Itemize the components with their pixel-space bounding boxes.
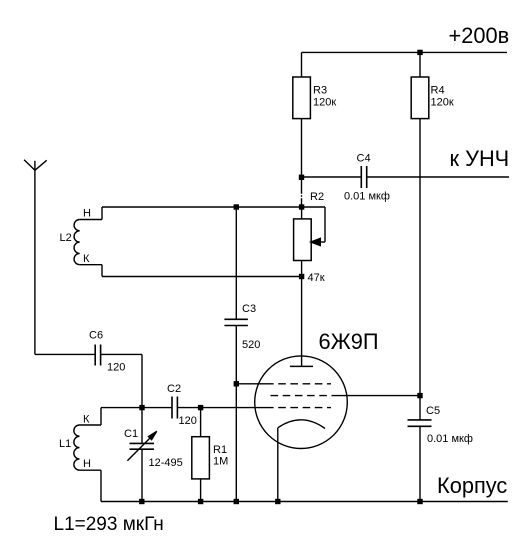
wire antenna to C6	[35, 353, 95, 355]
svg-text:К: К	[83, 414, 90, 426]
variable capacitor C1	[127, 431, 156, 460]
tube U1 grid g3 dashes	[266, 383, 331, 385]
wire R2 top lead	[301, 207, 303, 219]
wire C1 bottom lead	[141, 449, 143, 501]
capacitor C4	[361, 166, 366, 188]
capacitor C2	[172, 397, 177, 419]
capacitor C3	[224, 319, 248, 325]
svg-text:R3: R3	[313, 85, 327, 97]
svg-text:120: 120	[179, 415, 197, 427]
wire L2 K to node C	[80, 265, 302, 277]
svg-text:520: 520	[242, 339, 260, 351]
svg-text:+200в: +200в	[449, 23, 510, 48]
wire R1 top lead	[200, 408, 202, 437]
svg-text:120: 120	[107, 362, 125, 374]
wire R1 bottom lead	[200, 479, 202, 502]
wire C1 top lead	[141, 408, 143, 444]
tube U1 cathode	[278, 420, 325, 429]
svg-text:6Ж9П: 6Ж9П	[319, 329, 379, 354]
svg-text:C2: C2	[167, 383, 181, 395]
capacitor C6	[95, 345, 100, 366]
svg-text:C5: C5	[426, 405, 440, 417]
node C R2 bottom junction	[299, 274, 304, 279]
wire C3 branch vertical top	[235, 207, 237, 319]
tube U1 grid g2 dashes	[271, 395, 330, 397]
wire R3 bottom lead	[301, 119, 303, 177]
wire R4 to screen grid node	[419, 119, 421, 396]
svg-text:Н: Н	[83, 458, 91, 470]
resistor R1	[192, 437, 210, 479]
node A C6 L1 C1 junction	[139, 405, 144, 410]
svg-text:L1: L1	[59, 438, 71, 450]
tube U1 anode plate	[290, 365, 313, 367]
coil L2	[74, 220, 80, 265]
svg-text:120к: 120к	[313, 97, 336, 109]
wire C4 to output k UNCH	[367, 176, 509, 178]
svg-text:к УНЧ: к УНЧ	[450, 146, 510, 171]
top supply rail wire	[302, 51, 508, 53]
svg-text:Н: Н	[83, 208, 91, 220]
svg-text:R2: R2	[310, 191, 324, 203]
wire R4 top lead	[419, 52, 421, 77]
wire R3 top lead	[301, 52, 303, 77]
wire R2 wiper	[302, 207, 325, 246]
wire L2 H to node B	[80, 207, 302, 220]
wire L1 H to ground rail	[80, 470, 102, 501]
wire screen grid g2 to R4 C5 node	[332, 395, 421, 397]
svg-text:0.01 мкф: 0.01 мкф	[344, 191, 390, 203]
wire node D to R2 broken segment	[301, 177, 303, 207]
svg-text:Корпус: Корпус	[437, 473, 507, 498]
wire C6 to node A	[101, 354, 142, 407]
node ground C5	[417, 499, 422, 504]
svg-text:C1: C1	[124, 428, 138, 440]
wire C5 bottom lead	[419, 426, 421, 501]
svg-text:47к: 47к	[308, 272, 325, 284]
svg-text:L2: L2	[60, 232, 72, 244]
svg-text:120к: 120к	[431, 97, 454, 109]
svg-text:К: К	[83, 253, 90, 265]
node ground C3 branch	[234, 499, 239, 504]
svg-text:0.01 мкф: 0.01 мкф	[427, 433, 473, 445]
svg-text:C6: C6	[89, 330, 103, 342]
tube U1 grid g1 dashes	[266, 407, 331, 409]
svg-text:C4: C4	[357, 153, 371, 165]
svg-text:C3: C3	[242, 303, 256, 315]
wire node A to C2	[142, 407, 171, 409]
wire grid g3 stub	[236, 383, 266, 385]
ground rail wire	[101, 501, 508, 503]
wire R2 bottom to anode	[301, 261, 303, 367]
node g3 stub junction	[234, 381, 239, 386]
resistor R3	[293, 77, 311, 119]
node ground R1	[198, 499, 203, 504]
svg-text:R4: R4	[431, 85, 445, 97]
capacitor C5	[408, 420, 432, 426]
svg-text:L1=293 мкГн: L1=293 мкГн	[54, 514, 164, 535]
wire L1 K to node A	[80, 408, 143, 425]
node g2 C5 R4 junction	[417, 393, 422, 398]
tube U1 6Zh9P envelope	[255, 356, 348, 449]
wire C5 top lead	[419, 396, 421, 420]
resistor R4	[411, 77, 429, 119]
coil L1	[74, 425, 80, 470]
wire C3 branch vertical bottom	[235, 326, 237, 502]
svg-text:12-495: 12-495	[149, 457, 183, 469]
node B R2 top junction	[299, 204, 304, 209]
node L2 to C3 branch junction	[234, 204, 239, 209]
wire cathode to ground rail	[277, 428, 279, 502]
node ground cathode	[275, 499, 280, 504]
node ground C1	[139, 499, 144, 504]
wire C2 to grid g1	[177, 407, 266, 409]
node C2 R1 grid junction	[198, 405, 203, 410]
node D R3 C4 junction	[299, 175, 304, 180]
potentiometer R2	[294, 219, 312, 261]
node top rail R4 junction	[417, 50, 422, 55]
antenna W1	[24, 160, 47, 355]
svg-text:R1: R1	[213, 444, 227, 456]
wire node D to C4	[302, 176, 362, 178]
svg-text:1M: 1M	[213, 456, 228, 468]
